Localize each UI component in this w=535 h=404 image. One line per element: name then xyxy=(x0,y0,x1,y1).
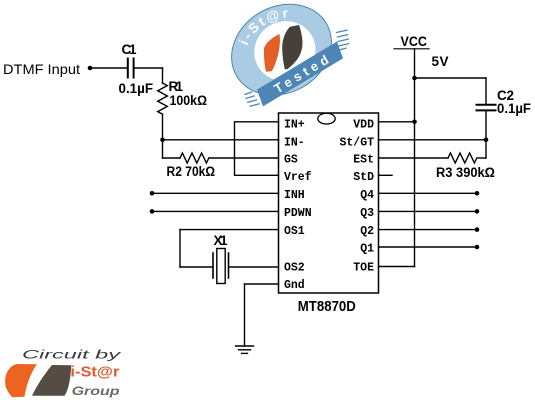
svg-text:OS2: OS2 xyxy=(284,262,305,275)
svg-text:Vref: Vref xyxy=(284,171,312,184)
svg-text:Q2: Q2 xyxy=(360,225,374,238)
svg-text:5V: 5V xyxy=(432,54,449,69)
svg-text:PDWN: PDWN xyxy=(284,207,312,220)
svg-text:100kΩ: 100kΩ xyxy=(170,93,208,108)
svg-text:C1: C1 xyxy=(122,42,137,57)
svg-text:St/GT: St/GT xyxy=(339,136,374,149)
svg-text:DTMF Input: DTMF Input xyxy=(3,61,80,77)
svg-text:OS1: OS1 xyxy=(284,225,305,238)
svg-text:i-St@r: i-St@r xyxy=(70,364,119,381)
svg-text:VDD: VDD xyxy=(353,118,374,131)
svg-text:ESt: ESt xyxy=(353,154,374,167)
svg-text:Q1: Q1 xyxy=(360,242,374,255)
svg-text:IN-: IN- xyxy=(284,136,305,149)
svg-text:MT8870D: MT8870D xyxy=(298,298,356,315)
svg-text:INH: INH xyxy=(284,189,305,202)
svg-text:Q4: Q4 xyxy=(360,189,374,202)
svg-text:R3 390kΩ: R3 390kΩ xyxy=(436,165,495,180)
svg-text:Q3: Q3 xyxy=(360,207,374,220)
svg-text:TOE: TOE xyxy=(353,262,374,275)
svg-text:0.1µF: 0.1µF xyxy=(497,101,531,116)
svg-text:IN+: IN+ xyxy=(284,118,305,131)
svg-text:X1: X1 xyxy=(214,233,228,248)
svg-text:StD: StD xyxy=(353,171,374,184)
svg-text:VCC: VCC xyxy=(401,33,428,49)
svg-text:GS: GS xyxy=(284,154,298,167)
svg-text:R2 70kΩ: R2 70kΩ xyxy=(167,164,216,179)
svg-text:R1: R1 xyxy=(169,79,184,94)
svg-text:0.1µF: 0.1µF xyxy=(119,81,154,96)
svg-text:Group: Group xyxy=(72,384,120,398)
svg-text:Gnd: Gnd xyxy=(284,279,305,292)
svg-text:Circuit by: Circuit by xyxy=(22,348,122,362)
